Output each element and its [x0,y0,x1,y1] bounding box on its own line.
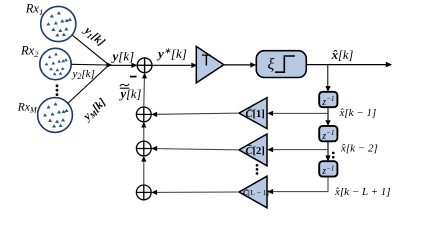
summer S1 circle-plus [136,107,151,122]
wire CL-1 to summer S3 [157,191,240,193]
summer S2 circle-plus [136,141,151,156]
svg-text:C̄[2]: C̄[2] [246,145,265,157]
wire summer S3 up to summer S2 [143,161,145,185]
arrowhead into quantizer box [250,62,256,67]
vertical dots delay column [332,152,335,163]
wire y1 from Rx1 to merge node [73,35,109,64]
wire C1 to summer S1 [157,113,240,114]
arrowhead into delay z2 [325,120,330,126]
delay box z^-1 second [319,126,337,141]
arrowhead into CL-1 base [267,189,273,194]
antenna cluster RxM circle [38,98,73,133]
wire delay z3 to coefficient CL-1 [273,177,329,192]
arrowhead into C1 base [267,111,273,116]
wire summer S2 up to summer S1 [143,127,145,142]
amplifier T triangle [196,46,224,83]
arrowhead up into summer S0 [142,73,147,79]
antenna cluster RxM dots [43,102,69,127]
svg-text:T: T [202,53,212,70]
arrowhead into C2 base [267,147,273,152]
minus sign at summer S0 [130,76,137,78]
tilde over ytilde [120,84,129,86]
wire summer S0 to amplifier T [152,64,192,66]
wire merge node to summer S0 [111,64,133,66]
svg-text:x̂[k − L + 1]: x̂[k − L + 1] [334,186,391,198]
arrowhead into summer S3 [151,190,157,195]
svg-text:y1[k]: y1[k] [80,23,107,49]
arrowhead into summer S1 [151,112,157,117]
svg-text:C̄[1]: C̄[1] [246,108,265,120]
vertical dots coefficient column [256,164,259,175]
wire tap to coefficient C2 [273,149,329,151]
svg-text:x̂[k − 1]: x̂[k − 1] [339,107,377,119]
summer S3 circle-plus [136,185,151,200]
wire tap to coefficient C1 [273,112,329,114]
svg-text:y2[k]: y2[k] [72,68,95,81]
arrowhead into delay z1 [325,86,330,92]
output arrowhead [386,62,392,68]
arrowhead up into summer S1 [141,122,146,128]
coefficient amplifier C1 triangle [239,98,267,129]
macron over ytilde [120,87,129,89]
antenna cluster Rx1 circle [41,6,76,41]
arrowhead into delay z3 [325,156,330,162]
wire delay z1 to delay z2 with tap [327,107,329,121]
wire summer S1 up to summer S0 [143,78,146,108]
wire amplifier T to quantizer box [224,64,251,66]
coefficient amplifier CL-1 triangle [239,176,267,208]
antenna cluster Rx2 dots [45,52,68,75]
svg-text:y[k]: y[k] [111,49,135,64]
arrowhead into amplifier T [191,63,197,68]
svg-text:x̂[k − 2]: x̂[k − 2] [340,142,378,154]
wire y2 from Rx2 to merge node [71,63,108,66]
wire quantizer to output [306,64,386,66]
arrowhead up into summer S2 [141,156,146,162]
antenna cluster Rx2 circle [40,48,71,79]
wire yM from RxM to merge node [68,65,109,103]
wire delay z2 to delay z3 with tap [327,141,329,156]
quantizer box xi [256,51,306,78]
wire C2 to summer S2 [157,149,240,150]
svg-text:y[k]: y[k] [119,87,142,101]
svg-text:C̄[L − 1]: C̄[L − 1] [243,188,269,197]
node tap on output to delay line [327,65,329,87]
svg-text:RxM: RxM [17,102,38,115]
svg-text:ξ: ξ [268,56,275,73]
svg-text:Rx2: Rx2 [20,44,39,59]
vertical dots between Rx2 and RxM [56,84,59,100]
arrowhead into summer S0 [131,63,137,68]
svg-text:x̂[k]: x̂[k] [331,48,354,62]
coefficient amplifier C2 triangle [239,134,267,166]
quantizer step symbol [275,56,295,72]
delay box z^-1 third [319,161,337,176]
summer S0 (main subtractor) [137,58,152,73]
svg-text:yM[k]: yM[k] [80,96,109,125]
arrowhead into summer S2 [151,146,157,151]
antenna cluster Rx1 dots [46,11,72,36]
merge arrowhead node [106,62,112,68]
svg-text:Rx1: Rx1 [25,2,43,17]
delay box z^-1 first [319,92,337,107]
svg-text:y∗[k]: y∗[k] [156,46,187,62]
